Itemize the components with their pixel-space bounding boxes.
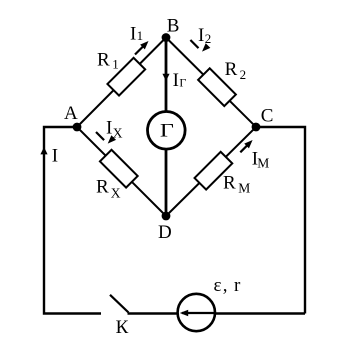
svg-text:M: M: [257, 156, 269, 171]
svg-text:I: I: [173, 70, 179, 91]
svg-text:X: X: [111, 186, 121, 201]
EMF source (epsilon, r): [178, 294, 215, 331]
svg-text:2: 2: [240, 67, 247, 82]
svg-text:Γ: Γ: [160, 121, 174, 142]
svg-text:1: 1: [137, 28, 144, 43]
svg-text:A: A: [64, 103, 78, 124]
arrow I2: [190, 40, 210, 54]
svg-text:Γ: Γ: [179, 76, 186, 90]
resistor RX: [100, 150, 138, 188]
svg-text:ε,r: ε,r: [214, 275, 242, 296]
arrow I_G (galvanometer current): [162, 74, 169, 81]
svg-text:R: R: [96, 176, 109, 197]
wire: arm A-B: [77, 38, 166, 128]
wire: left branch A to bottom-left corner: [44, 127, 101, 314]
node B: [162, 33, 171, 42]
svg-text:R: R: [223, 173, 236, 194]
arrow IM: [240, 138, 255, 153]
wire: arm B-C: [166, 38, 256, 128]
node C: [252, 123, 261, 132]
galvanometer G: [148, 112, 186, 150]
resistor R1: [107, 58, 145, 96]
resistor RM: [195, 152, 233, 190]
svg-text:B: B: [167, 15, 180, 36]
node A: [73, 123, 82, 132]
svg-text:I: I: [198, 25, 204, 46]
svg-text:R: R: [97, 50, 110, 71]
svg-text:M: M: [238, 180, 250, 195]
arrow I1: [135, 39, 151, 55]
wire: galvanometer down to D: [165, 149, 168, 217]
wire: B down to galvanometer: [165, 38, 168, 113]
wire: arm D-C: [166, 127, 256, 216]
svg-text:К: К: [116, 317, 129, 338]
arrow IX: [96, 132, 116, 146]
svg-text:R: R: [225, 59, 238, 80]
svg-text:I: I: [130, 23, 136, 44]
node D: [162, 212, 171, 221]
arrow I (main current, on left wire): [40, 147, 47, 154]
svg-text:2: 2: [205, 31, 212, 46]
svg-text:I: I: [106, 118, 112, 139]
wire: bottom run from switch to right corner: [128, 312, 306, 314]
svg-text:1: 1: [112, 57, 119, 72]
svg-text:I: I: [52, 146, 58, 167]
resistor R2: [198, 68, 236, 106]
svg-text:D: D: [158, 222, 172, 243]
svg-text:X: X: [113, 125, 123, 140]
switch K: [110, 295, 129, 313]
wire: right branch bottom corner up to C: [256, 127, 305, 314]
wire: arm A-D: [77, 127, 166, 216]
svg-text:C: C: [261, 105, 274, 126]
